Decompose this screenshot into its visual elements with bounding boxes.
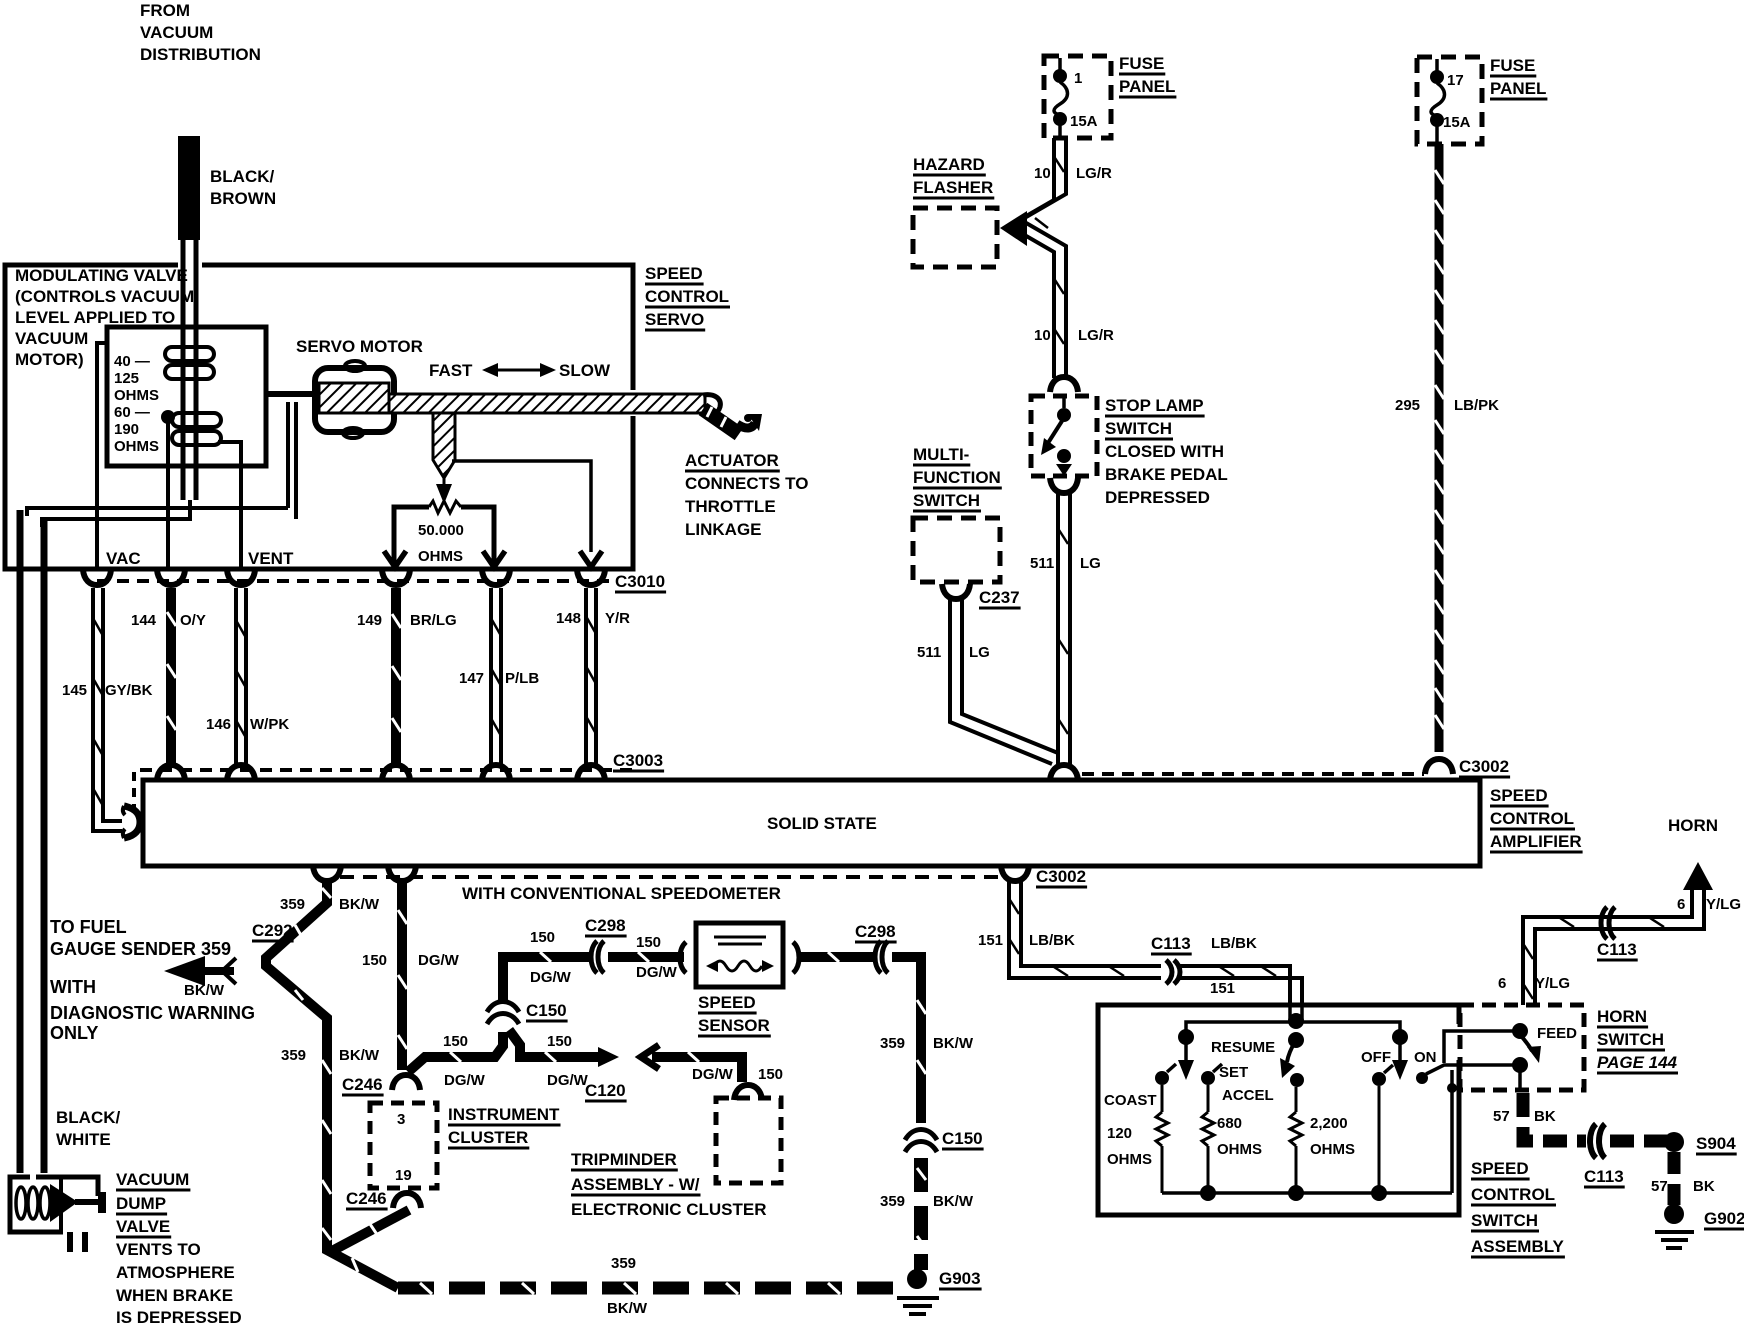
svg-text:VACUUM: VACUUM <box>15 329 88 348</box>
svg-text:C246: C246 <box>342 1075 383 1094</box>
svg-text:SERVO: SERVO <box>645 310 704 329</box>
svg-text:INSTRUMENT: INSTRUMENT <box>448 1105 560 1124</box>
wire feed to switch <box>1444 1031 1516 1063</box>
vacuum hose to dump valve (wide tube) <box>20 510 44 1173</box>
wire 147 P/LB <box>491 588 501 764</box>
svg-text:C237: C237 <box>979 588 1020 607</box>
svg-text:LG: LG <box>969 644 990 661</box>
svg-text:ELECTRONIC CLUSTER: ELECTRONIC CLUSTER <box>571 1200 767 1219</box>
wire on-contact to horn feed lower <box>1426 1065 1516 1074</box>
label 295 LB/PK <box>1395 397 1499 414</box>
svg-text:DUMP: DUMP <box>116 1194 166 1213</box>
svg-text:BK/W: BK/W <box>339 1047 380 1064</box>
label TRIPMINDER ASSEMBLY <box>571 1150 767 1219</box>
speed control switch assembly box <box>1098 1005 1459 1215</box>
svg-text:MULTI-: MULTI- <box>913 445 969 464</box>
svg-text:P/LB: P/LB <box>505 670 539 687</box>
hazard flasher dashed box <box>913 208 997 267</box>
label 151 LB/BK <box>978 932 1075 949</box>
svg-text:SWITCH: SWITCH <box>1597 1030 1664 1049</box>
svg-text:SLOW: SLOW <box>559 361 611 380</box>
svg-text:SOLID STATE: SOLID STATE <box>767 814 877 833</box>
connector cup below stop lamp switch <box>1050 478 1078 493</box>
svg-text:BLACK/: BLACK/ <box>56 1108 120 1127</box>
wire 144 O/Y <box>167 588 176 764</box>
svg-text:Y/LG: Y/LG <box>1706 896 1741 913</box>
wire from tap down to VAC port connector <box>166 417 170 569</box>
svg-text:SWITCH: SWITCH <box>913 491 980 510</box>
svg-text:FLASHER: FLASHER <box>913 178 993 197</box>
svg-text:O/Y: O/Y <box>180 612 206 629</box>
label 149 BR/LG <box>357 612 457 629</box>
svg-text:190: 190 <box>114 421 139 438</box>
svg-text:15A: 15A <box>1070 113 1098 130</box>
label 10 LG/R upper <box>1034 165 1112 182</box>
svg-text:SPEED: SPEED <box>1471 1159 1529 1178</box>
svg-text:150: 150 <box>636 934 661 951</box>
connector chevron C120 <box>641 1045 659 1069</box>
svg-text:Y/LG: Y/LG <box>1535 975 1570 992</box>
fuse 1 15A symbol <box>1053 58 1098 138</box>
svg-text:BK: BK <box>1534 1108 1556 1125</box>
label HAZARD FLASHER <box>913 155 993 197</box>
resume switch arm <box>1280 1013 1304 1078</box>
svg-text:CONTROL: CONTROL <box>1471 1185 1555 1204</box>
svg-text:GAUGE SENDER 359: GAUGE SENDER 359 <box>50 939 231 959</box>
svg-text:C113: C113 <box>1597 940 1637 959</box>
svg-text:Y/R: Y/R <box>605 610 630 627</box>
svg-text:WHITE: WHITE <box>56 1130 111 1149</box>
wire 150 DG/W C298 to speed sensor <box>608 952 684 962</box>
svg-text:ACTUATOR: ACTUATOR <box>685 451 779 470</box>
svg-text:C150: C150 <box>942 1129 983 1148</box>
svg-text:ACCEL: ACCEL <box>1222 1087 1274 1104</box>
svg-text:W/PK: W/PK <box>250 716 289 733</box>
svg-text:60 —: 60 — <box>114 404 150 421</box>
label 150 DG/W <box>362 952 460 969</box>
svg-text:147: 147 <box>459 670 484 687</box>
hose from servo chamber down <box>288 402 296 519</box>
label 511 LG left <box>917 644 990 661</box>
label 145 GY/BK <box>62 682 153 699</box>
splice S904 <box>1664 1132 1736 1153</box>
connector C113 on 57 BK <box>1584 1124 1624 1186</box>
label STOP LAMP SWITCH CLOSED WITH BRAKE PEDAL DEPRESSED <box>1105 396 1228 507</box>
label INSTRUMENT CLUSTER <box>448 1105 560 1147</box>
svg-text:LB/BK: LB/BK <box>1029 932 1075 949</box>
connector cup wire 359 below amplifier <box>313 866 341 881</box>
coil upper (40-125 ohms) <box>165 347 214 379</box>
svg-text:150: 150 <box>362 952 387 969</box>
wire 359 BK/W amp to C292 <box>266 881 398 1288</box>
svg-text:150: 150 <box>530 929 555 946</box>
connector C113 on 151 <box>1151 934 1257 984</box>
svg-text:OFF: OFF <box>1361 1049 1391 1066</box>
svg-text:RESUME: RESUME <box>1211 1039 1275 1056</box>
label 10 LG/R lower <box>1034 327 1114 344</box>
ground G903 <box>897 1269 981 1314</box>
svg-text:FUSE: FUSE <box>1490 56 1535 75</box>
svg-text:C246: C246 <box>346 1189 387 1208</box>
svg-text:DEPRESSED: DEPRESSED <box>1105 488 1210 507</box>
svg-text:LINKAGE: LINKAGE <box>685 520 762 539</box>
svg-text:10: 10 <box>1034 327 1051 344</box>
dashed connector line C3002 top <box>1082 772 1424 776</box>
svg-text:PAGE 144: PAGE 144 <box>1597 1053 1678 1072</box>
vacuum tube from hose into modulating valve <box>183 238 196 500</box>
svg-text:150: 150 <box>443 1033 468 1050</box>
svg-text:TRIPMINDER: TRIPMINDER <box>571 1150 677 1169</box>
label ACTUATOR CONNECTS TO THROTTLE LINKAGE <box>685 451 808 539</box>
svg-text:511: 511 <box>917 644 941 661</box>
label FAST / SLOW with arrow <box>429 361 611 380</box>
svg-text:511: 511 <box>1030 555 1054 572</box>
svg-text:145: 145 <box>62 682 87 699</box>
label MULTI-FUNCTION SWITCH <box>913 445 1001 510</box>
svg-text:ASSEMBLY - W/: ASSEMBLY - W/ <box>571 1175 700 1194</box>
svg-text:FUNCTION: FUNCTION <box>913 468 1001 487</box>
svg-text:C292: C292 <box>252 921 293 940</box>
dashed line with conventional speedometer <box>340 877 1002 903</box>
arrow into 50000 ohms resistor <box>436 478 452 504</box>
svg-text:CONNECTS TO: CONNECTS TO <box>685 474 808 493</box>
svg-text:OHMS: OHMS <box>418 548 463 565</box>
svg-text:C113: C113 <box>1151 934 1191 953</box>
svg-text:BK/W: BK/W <box>933 1035 974 1052</box>
svg-text:SET: SET <box>1219 1064 1248 1081</box>
svg-text:S904: S904 <box>1696 1134 1736 1153</box>
wire 150 sensor to C298 right <box>800 952 873 962</box>
svg-text:C150: C150 <box>526 1001 567 1020</box>
svg-text:C298: C298 <box>855 922 896 941</box>
fuse panel 17 dashed box <box>1417 57 1482 144</box>
off/on switch arm <box>1392 1029 1408 1080</box>
off contact <box>1372 1065 1393 1086</box>
label 151 lower <box>1210 980 1235 997</box>
wire 151 after C113 to switch assembly <box>1180 966 1302 1005</box>
wire 150 DG/W C150 to C120 arrow <box>509 1030 619 1067</box>
coast contact <box>1155 1064 1176 1085</box>
wire 6 Y/LG horn down and to C113 <box>1523 890 1704 1005</box>
svg-text:FAST: FAST <box>429 361 473 380</box>
svg-text:125: 125 <box>114 370 139 387</box>
svg-text:DG/W: DG/W <box>636 964 678 981</box>
svg-text:WHEN BRAKE: WHEN BRAKE <box>116 1286 233 1305</box>
wire 149 BR/LG <box>392 588 401 764</box>
svg-text:MODULATING VALVE: MODULATING VALVE <box>15 266 188 285</box>
resume contact <box>1290 1073 1304 1087</box>
note FROM VACUUM DISTRIBUTION <box>140 1 261 64</box>
svg-text:SERVO MOTOR: SERVO MOTOR <box>296 337 423 356</box>
svg-text:PANEL: PANEL <box>1119 77 1175 96</box>
svg-text:SWITCH: SWITCH <box>1105 419 1172 438</box>
svg-text:LG: LG <box>1080 555 1101 572</box>
wire 359 BK/W dashed to G903 <box>917 1158 926 1270</box>
svg-text:VACUUM: VACUUM <box>116 1170 189 1189</box>
label C292 <box>252 921 293 940</box>
label RESUME SET ACCEL <box>1211 1039 1275 1104</box>
svg-text:1: 1 <box>1074 70 1082 87</box>
svg-text:150: 150 <box>547 1033 572 1050</box>
wire 145 GY/BK <box>93 588 122 831</box>
svg-text:LB/BK: LB/BK <box>1211 935 1257 952</box>
svg-text:57: 57 <box>1651 1178 1668 1195</box>
set/accel contact <box>1201 1064 1222 1085</box>
connector C113 horn <box>1597 907 1637 959</box>
on contact <box>1416 1072 1428 1084</box>
fuse panel 1 dashed box <box>1044 56 1111 138</box>
wire 57 BK S904 to G902 <box>1668 1152 1681 1205</box>
label SPEED CONTROL SERVO <box>645 264 729 329</box>
vac line from valve left to connector 1 <box>97 343 108 569</box>
svg-text:LG/R: LG/R <box>1076 165 1112 182</box>
hazard flasher tap arrow <box>1000 211 1027 246</box>
svg-text:LB/PK: LB/PK <box>1454 397 1499 414</box>
label 150 DG/W mid <box>636 934 678 981</box>
svg-text:WITH: WITH <box>50 977 96 997</box>
coast resistor 120 ohms <box>1107 1085 1168 1193</box>
connector C3003 dashed line <box>134 751 663 808</box>
svg-text:295: 295 <box>1395 397 1420 414</box>
label VACUUM DUMP VALVE VENTS <box>116 1170 242 1327</box>
svg-text:FUSE: FUSE <box>1119 54 1164 73</box>
svg-text:6: 6 <box>1498 975 1506 992</box>
fuel gauge sender arrow <box>164 956 236 986</box>
wire 148 Y/R <box>586 588 596 764</box>
wire lower contact down to bottom bus <box>1447 1070 1520 1193</box>
horn switch dashed box <box>1460 1005 1584 1090</box>
fuse 17 15A symbol <box>1430 59 1471 144</box>
label 57 BK lower <box>1651 1178 1715 1195</box>
resume resistor 2200 ohms <box>1290 1087 1355 1193</box>
svg-text:ON: ON <box>1414 1049 1437 1066</box>
wire 150 DG/W C120 to tripminder <box>652 1052 742 1082</box>
svg-text:359: 359 <box>880 1035 905 1052</box>
arrow down left of R1 <box>384 551 406 567</box>
svg-text:CONTROL: CONTROL <box>1490 809 1574 828</box>
connector cup C3002 amp bottom <box>1001 866 1086 886</box>
svg-text:DG/W: DG/W <box>444 1072 486 1089</box>
label 359 BK/W right <box>880 1035 974 1052</box>
label BLACK/WHITE <box>56 1108 120 1149</box>
speed sensor box <box>696 923 783 987</box>
svg-text:STOP LAMP: STOP LAMP <box>1105 396 1204 415</box>
svg-text:C3003: C3003 <box>613 751 663 770</box>
svg-text:GY/BK: GY/BK <box>105 682 153 699</box>
svg-text:SPEED: SPEED <box>698 993 756 1012</box>
svg-text:10: 10 <box>1034 165 1051 182</box>
svg-text:BK/W: BK/W <box>933 1193 974 1210</box>
speed sensor right cup <box>793 942 799 973</box>
svg-text:HORN: HORN <box>1668 816 1718 835</box>
svg-text:VALVE: VALVE <box>116 1217 170 1236</box>
label 146 W/PK <box>206 716 289 733</box>
svg-text:SPEED: SPEED <box>1490 786 1548 805</box>
svg-text:OHMS: OHMS <box>1310 1141 1355 1158</box>
label C120 <box>585 1081 626 1100</box>
label 144 O/Y <box>131 612 206 629</box>
connector C3010 dashed line <box>97 572 665 591</box>
connector C298 right <box>855 922 896 973</box>
label SPEED CONTROL AMPLIFIER <box>1490 786 1582 851</box>
junction dot on valve tap <box>161 410 175 424</box>
svg-text:MOTOR): MOTOR) <box>15 350 84 369</box>
svg-text:ONLY: ONLY <box>50 1023 98 1043</box>
svg-text:OHMS: OHMS <box>1217 1141 1262 1158</box>
connector C246 lower cup <box>346 1189 421 1208</box>
label SERVO MOTOR <box>296 337 423 356</box>
connector cups C3010 <box>83 570 605 585</box>
svg-text:150: 150 <box>758 1066 783 1083</box>
label 6 Y/LG upper <box>1677 896 1741 913</box>
svg-text:BROWN: BROWN <box>210 189 276 208</box>
svg-text:3: 3 <box>397 1111 405 1128</box>
svg-text:SENSOR: SENSOR <box>698 1016 770 1035</box>
svg-text:AMPLIFIER: AMPLIFIER <box>1490 832 1582 851</box>
coil lower (60-190 ohms) <box>172 413 221 445</box>
50.000 ohms resistor box R1 <box>394 501 494 569</box>
tripminder dashed box <box>716 1098 781 1183</box>
svg-text:C3002: C3002 <box>1036 867 1086 886</box>
svg-text:G902: G902 <box>1704 1209 1744 1228</box>
svg-text:BLACK/: BLACK/ <box>210 167 274 186</box>
stop lamp switch contacts and blade <box>1041 398 1072 476</box>
label FUSE PANEL (right) <box>1490 56 1546 98</box>
svg-text:19: 19 <box>395 1167 412 1184</box>
svg-text:IS DEPRESSED: IS DEPRESSED <box>116 1308 242 1327</box>
wire 359 BK/W sensor loop down <box>892 957 926 1123</box>
svg-text:VENTS TO: VENTS TO <box>116 1240 201 1259</box>
label 147 P/LB <box>459 670 539 687</box>
note MODULATING VALVE <box>15 266 194 369</box>
vacuum dump valve <box>10 1177 106 1252</box>
svg-text:PANEL: PANEL <box>1490 79 1546 98</box>
svg-text:C298: C298 <box>585 916 626 935</box>
svg-text:ASSEMBLY: ASSEMBLY <box>1471 1237 1565 1256</box>
note TO FUEL GAUGE SENDER <box>50 917 255 1043</box>
actuator wiper (hatched vertical bar) <box>433 413 455 478</box>
actuator hook to throttle linkage <box>703 395 762 434</box>
svg-text:OHMS: OHMS <box>114 387 159 404</box>
modulating valve inner box <box>107 327 266 466</box>
svg-text:THROTTLE: THROTTLE <box>685 497 776 516</box>
speed control amplifier box (solid state) <box>143 780 1480 866</box>
wire 150 horizontal from C150 to C246 <box>408 1032 503 1072</box>
svg-text:DG/W: DG/W <box>547 1072 589 1089</box>
multi-function switch dashed box <box>913 518 1000 582</box>
connector C150 upper <box>487 1001 567 1024</box>
label 511 LG right <box>1030 555 1101 572</box>
svg-text:146: 146 <box>206 716 231 733</box>
svg-text:C113: C113 <box>1584 1167 1624 1186</box>
connector cup above stop lamp switch <box>1050 377 1078 392</box>
label DG/W 150 tripminder <box>692 1066 783 1083</box>
connector C298 left <box>585 916 626 973</box>
wiper feedback wire to third arrow <box>452 461 591 552</box>
svg-text:BRAKE PEDAL: BRAKE PEDAL <box>1105 465 1228 484</box>
svg-text:148: 148 <box>556 610 581 627</box>
svg-text:CLOSED WITH: CLOSED WITH <box>1105 442 1224 461</box>
svg-text:DG/W: DG/W <box>418 952 460 969</box>
svg-text:TO FUEL: TO FUEL <box>50 917 127 937</box>
svg-text:COAST: COAST <box>1104 1092 1157 1109</box>
svg-text:DG/W: DG/W <box>530 969 572 986</box>
label 57 BK <box>1493 1108 1556 1125</box>
servo motor <box>315 361 394 438</box>
wire from cluster pin19 to 359 splice <box>330 1210 409 1252</box>
label HORN <box>1668 816 1718 835</box>
horn switch blade <box>1522 1037 1541 1063</box>
wire 150 DG/W amp down to C246 <box>398 881 407 1070</box>
svg-text:DG/W: DG/W <box>692 1066 734 1083</box>
svg-text:680: 680 <box>1217 1115 1242 1132</box>
label 359 BK/W mid <box>281 1047 380 1064</box>
svg-text:SPEED: SPEED <box>645 264 703 283</box>
switch top bus wire <box>1186 1005 1400 1037</box>
label 150 DG/W upper <box>530 929 572 986</box>
svg-text:57: 57 <box>1493 1108 1510 1125</box>
horn arrow up <box>1683 862 1713 890</box>
connector cup wire 150 below amplifier <box>388 866 416 881</box>
label 150 DG/W horizontal left <box>443 1033 486 1089</box>
switch bottom bus wire <box>1162 1185 1452 1201</box>
svg-text:LEVEL APPLIED TO: LEVEL APPLIED TO <box>15 308 175 327</box>
wire valve to servo motor <box>266 391 318 397</box>
hose horizontal walls <box>27 500 288 527</box>
label 150 DG/W right branch <box>547 1033 589 1089</box>
coast switch arm <box>1178 1029 1194 1080</box>
svg-text:40 —: 40 — <box>114 353 150 370</box>
svg-text:VENT: VENT <box>248 549 294 568</box>
svg-text:17: 17 <box>1447 72 1464 89</box>
connector cup tripminder <box>734 1085 762 1100</box>
label 359 BK/W lower right <box>880 1193 974 1210</box>
svg-text:DIAGNOSTIC WARNING: DIAGNOSTIC WARNING <box>50 1003 255 1023</box>
label BLACK/BROWN <box>210 167 276 208</box>
label HORN SWITCH PAGE 144 <box>1597 1007 1678 1072</box>
label 148 Y/R <box>556 610 630 627</box>
svg-text:BR/LG: BR/LG <box>410 612 457 629</box>
instrument cluster dashed box <box>370 1103 437 1188</box>
svg-text:CLUSTER: CLUSTER <box>448 1128 528 1147</box>
label VAC <box>106 549 141 568</box>
svg-text:G903: G903 <box>939 1269 981 1288</box>
off wire down <box>1378 1086 1381 1193</box>
connector cup C3002 right <box>1425 757 1509 776</box>
label 359 BK/W bottom <box>607 1255 648 1317</box>
svg-text:359: 359 <box>280 896 305 913</box>
svg-text:CONTROL: CONTROL <box>645 287 729 306</box>
svg-text:C120: C120 <box>585 1081 626 1100</box>
svg-text:BK: BK <box>1693 1178 1715 1195</box>
wire 146 W/PK <box>236 588 246 764</box>
wire 151 LB/BK down and right <box>1009 881 1161 978</box>
label SPEED CONTROL SWITCH ASSEMBLY <box>1471 1159 1565 1256</box>
wire 57 BK to splice S904 <box>1610 1135 1668 1148</box>
label 359 BK/W upper <box>280 896 380 913</box>
svg-text:SWITCH: SWITCH <box>1471 1211 1538 1230</box>
svg-text:BK/W: BK/W <box>339 896 380 913</box>
wire vent from coil to VENT port <box>218 442 241 569</box>
svg-text:C3010: C3010 <box>615 572 665 591</box>
svg-text:50.000: 50.000 <box>418 522 464 539</box>
wire 57 BK from horn switch <box>1523 1093 1586 1141</box>
svg-text:VAC: VAC <box>106 549 141 568</box>
svg-text:HAZARD: HAZARD <box>913 155 985 174</box>
vacuum hose (black/brown) solid bar <box>178 136 200 240</box>
wire 511 LG stop lamp to amplifier <box>1058 493 1070 764</box>
svg-text:15A: 15A <box>1443 114 1471 131</box>
